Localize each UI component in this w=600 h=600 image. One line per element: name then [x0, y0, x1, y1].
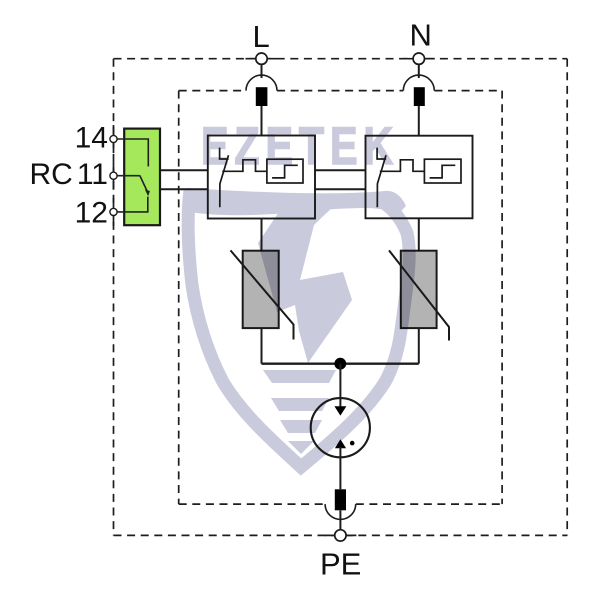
solid stubs at terminals on borders — [114, 59, 435, 536]
fuse mark F3 on PE — [335, 489, 346, 510]
wire terminal 11 to switch blade — [114, 175, 140, 177]
wire terminal 14 to contact — [114, 139, 149, 167]
terminal PE circle — [335, 530, 346, 541]
switch contact U1 — [220, 148, 229, 159]
varistor RU1 — [231, 250, 294, 339]
watermark lightning bolt — [258, 200, 352, 363]
wire L vertical — [261, 64, 263, 135]
wire N vertical — [418, 64, 420, 136]
terminal L circle — [256, 53, 267, 64]
fuse mark F2 on N — [414, 87, 425, 106]
wire fuse to PE terminal — [339, 510, 341, 530]
trigger box U2 — [424, 159, 461, 183]
svg-text:12: 12 — [75, 196, 108, 229]
watermark EZETEK logo — [187, 117, 409, 467]
watermark wedge — [288, 441, 314, 454]
inner module dashed border — [179, 91, 502, 505]
remote contact block RC — [114, 129, 161, 226]
switch contact U2 — [377, 148, 386, 159]
svg-text:N: N — [410, 18, 432, 53]
wire junction to GDT — [339, 364, 341, 408]
wire U2 to varistor RU2 — [418, 218, 420, 250]
junction node — [334, 358, 346, 370]
switch blade U1 — [220, 155, 229, 207]
watermark bar 3 — [280, 420, 322, 433]
watermark bar 2 — [271, 398, 329, 411]
zigzag linkage U1 — [222, 160, 267, 172]
terminal 11 circle — [110, 172, 117, 179]
watermark shield outline sides — [188, 190, 409, 467]
wire hop arc at N over inner border — [403, 75, 434, 91]
wire GDT to PE fuse — [339, 447, 341, 489]
wire hop arc at PE under inner border — [325, 504, 356, 519]
watermark shield top swoosh — [187, 188, 406, 215]
wire U1 to varistor RU1 — [261, 219, 263, 251]
trigger box U1 — [267, 159, 303, 183]
svg-text:PE: PE — [320, 547, 361, 582]
outer enclosure dashed border — [114, 59, 568, 536]
wire hop arc at L over inner border — [246, 75, 277, 91]
terminal 14 circle — [110, 135, 117, 142]
switch blade RC changeover — [140, 176, 148, 192]
zigzag linkage U2 — [380, 160, 425, 172]
svg-text:L: L — [253, 19, 270, 54]
switch blade U2 — [377, 155, 386, 207]
watermark bar 1 — [263, 370, 336, 383]
gas discharge tube FV1 — [311, 398, 370, 457]
wire bottom bus — [262, 363, 419, 365]
thermal disconnector box U1 (L) — [208, 136, 315, 219]
svg-text:14: 14 — [75, 122, 108, 155]
wire varistor RU2 down — [418, 328, 420, 364]
step symbol U1 — [272, 165, 298, 178]
terminal 12 circle — [110, 208, 117, 215]
wire varistor RU1 down — [261, 328, 263, 364]
wire terminal 12 to contact — [114, 197, 148, 212]
fuse mark F1 on L — [256, 87, 268, 106]
wires RC block to disconnector — [160, 170, 366, 189]
terminal N circle — [413, 53, 424, 64]
varistor RU2 — [389, 250, 449, 340]
svg-text:EZETEK: EZETEK — [201, 117, 399, 176]
thermal disconnector box U2 (N) — [366, 136, 473, 219]
svg-text:11: 11 — [77, 158, 108, 191]
svg-text:RC: RC — [30, 158, 73, 191]
step symbol U2 — [430, 165, 456, 178]
